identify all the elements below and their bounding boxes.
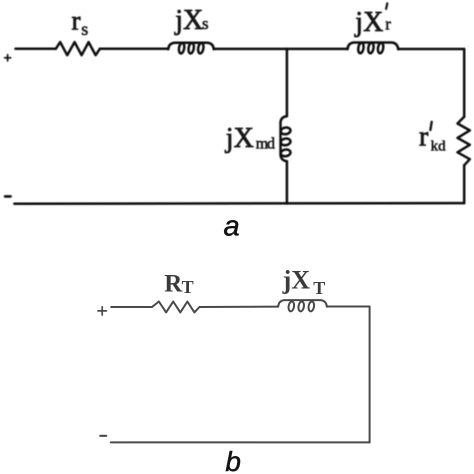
wire: R_T to jX_T (200, 306, 279, 308)
svg-text:jX: jX (225, 123, 254, 154)
resistor r'_kd (vertical) (458, 117, 470, 166)
label r_s (72, 6, 89, 40)
svg-text:R: R (164, 270, 183, 297)
inductor jX_r' (348, 42, 399, 53)
label r'_kd (419, 121, 446, 154)
inductor jX_T (278, 300, 327, 312)
svg-text:s: s (202, 14, 209, 33)
svg-text:jX: jX (174, 5, 203, 36)
label jX_md (225, 123, 275, 154)
wire: top-left lead circuit b (111, 306, 152, 308)
svg-text:T: T (313, 278, 325, 298)
plus terminal (+) circuit b (98, 307, 106, 315)
wire: bottom rail circuit b (111, 441, 370, 443)
wire: right side circuit b (369, 307, 371, 443)
wire: jX_md to bottom rail (286, 161, 289, 203)
wire: jX_T to top-right corner circuit b (327, 306, 370, 308)
label R_T (164, 270, 193, 297)
label jX_r' (354, 3, 391, 38)
minus terminal (-) circuit a (5, 195, 11, 198)
svg-text:b: b (225, 446, 241, 474)
wire: bottom rail circuit a (14, 202, 464, 205)
svg-text:kd: kd (431, 139, 447, 155)
minus terminal (-) circuit b (100, 435, 106, 437)
wire: top-left lead (16, 48, 56, 51)
svg-text:jX: jX (282, 265, 311, 294)
svg-text:md: md (256, 136, 275, 153)
svg-text:r: r (385, 15, 391, 34)
svg-text:jX: jX (354, 7, 383, 38)
svg-text:a: a (224, 211, 240, 243)
wire: right branch upper (463, 49, 466, 117)
inductor jX_s (168, 43, 214, 54)
label jX_T (282, 265, 326, 298)
wire: between r_s and jX_s (100, 48, 168, 51)
wire: jX_r' to top-right corner (398, 48, 464, 51)
svg-text:T: T (182, 277, 194, 297)
label jX_s (174, 5, 208, 36)
inductor jX_md (vertical) (280, 116, 291, 161)
wire: jX_s to jX_r' (passes node) (214, 48, 348, 51)
wire: right branch lower (463, 165, 466, 203)
svg-text:r: r (72, 6, 81, 36)
svg-text:s: s (81, 19, 88, 39)
wire: node down to jX_md (286, 49, 289, 116)
svg-text:r: r (419, 121, 429, 152)
resistor R_T (152, 302, 200, 313)
resistor r_s (56, 42, 100, 55)
plus terminal (+) circuit a (5, 55, 11, 61)
